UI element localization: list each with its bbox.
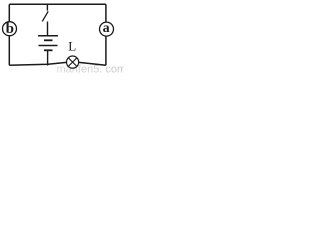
wire left side lower (8, 36, 10, 65)
wire bottom rail right segment (79, 62, 106, 65)
meter a (100, 21, 114, 36)
meter b (3, 21, 17, 37)
wire bottom rail left segment (9, 62, 66, 65)
switch S (open) (42, 4, 48, 35)
battery plate long 2 (39, 45, 58, 47)
wire right side lower (105, 36, 107, 65)
switch bottom post / wire to battery (47, 22, 49, 36)
wire top rail (9, 3, 106, 5)
battery plate short 2 (44, 49, 53, 51)
svg-text:b: b (6, 21, 14, 37)
wire battery to bottom rail (47, 51, 49, 66)
battery plate long 1 (38, 35, 58, 37)
background (0, 0, 124, 73)
wire right side upper (105, 4, 107, 22)
battery plate short 1 (44, 39, 53, 41)
switch blade (42, 11, 48, 21)
lamp L (67, 56, 79, 68)
battery (38, 36, 58, 66)
svg-text:a: a (103, 21, 110, 36)
svg-text:L: L (68, 39, 76, 54)
switch top post (46, 4, 48, 10)
wire left side upper (8, 4, 10, 22)
